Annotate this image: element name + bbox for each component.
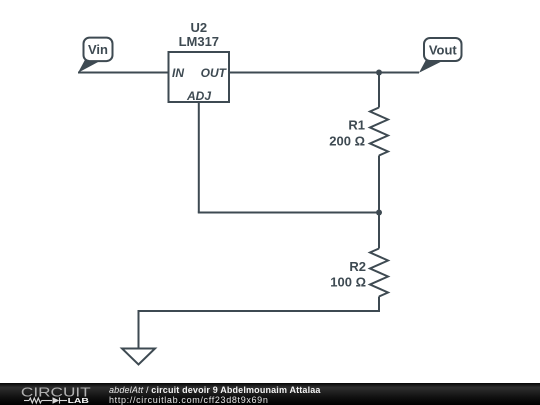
node junction at Vout branch <box>376 70 382 76</box>
svg-text:LAB: LAB <box>68 396 90 405</box>
wire U2.OUT to Vout <box>229 72 419 74</box>
svg-text:Vin: Vin <box>88 42 108 57</box>
svg-text:R2: R2 <box>349 259 366 274</box>
footer caption line 2 <box>109 395 269 405</box>
svg-text:IN: IN <box>172 66 184 80</box>
svg-text:Vout: Vout <box>429 43 458 58</box>
resistor R1 <box>370 108 388 156</box>
svg-text:LM317: LM317 <box>179 34 219 49</box>
wire mid node to R2 top <box>378 213 380 249</box>
svg-text:OUT: OUT <box>201 66 228 80</box>
wire U2.ADJ down <box>198 102 200 213</box>
resistor R2 <box>370 249 388 297</box>
CircuitLab logo <box>18 383 98 405</box>
svg-text:R1: R1 <box>348 118 365 133</box>
footer caption line 1 <box>109 385 321 395</box>
svg-text:ADJ: ADJ <box>186 89 211 103</box>
flag Vout <box>419 38 462 73</box>
ground <box>122 349 155 365</box>
wire ADJ to mid node <box>198 212 379 214</box>
wire R2 bottom <box>378 297 380 312</box>
wire Vin to U2.IN <box>78 72 169 74</box>
footer bar <box>0 383 540 405</box>
wire R1 bottom to mid node <box>378 156 380 213</box>
box U2 LM317 <box>169 52 230 102</box>
wire node Vout to R1 top <box>378 72 380 108</box>
svg-text:200 Ω: 200 Ω <box>329 134 365 149</box>
flag Vin <box>78 38 113 73</box>
svg-text:100 Ω: 100 Ω <box>330 275 366 290</box>
wire bottom horizontal to ground <box>139 310 381 312</box>
node junction mid (ADJ / R1 / R2) <box>376 210 382 216</box>
wire down to ground symbol <box>138 310 140 349</box>
